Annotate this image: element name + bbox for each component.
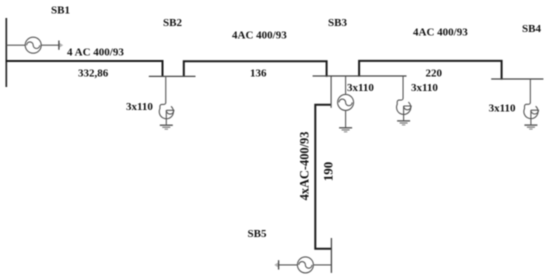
svg-text:SB2: SB2 [163,17,182,29]
svg-text:4AC 400/93: 4AC 400/93 [232,30,287,42]
svg-text:3x110: 3x110 [489,103,516,115]
svg-text:4 AC 400/93: 4 AC 400/93 [67,46,124,58]
svg-text:SB1: SB1 [51,5,70,17]
svg-text:332,86: 332,86 [78,67,109,79]
svg-text:4xAC-400/93: 4xAC-400/93 [298,132,312,201]
svg-text:220: 220 [426,67,443,79]
svg-text:SB5: SB5 [248,228,267,240]
svg-text:SB3: SB3 [328,17,347,29]
svg-text:SB4: SB4 [522,23,541,35]
svg-text:190: 190 [321,162,336,182]
svg-text:3x110: 3x110 [126,101,153,113]
svg-text:3x110: 3x110 [411,82,438,94]
svg-text:136: 136 [250,67,267,79]
svg-text:4AC 400/93: 4AC 400/93 [413,27,468,39]
svg-text:3x110: 3x110 [347,82,374,94]
